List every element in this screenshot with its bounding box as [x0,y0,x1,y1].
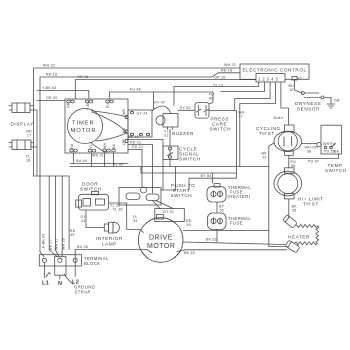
label THERMAL FUSE (HEATER) [228,185,252,199]
timer pin top 3 [106,100,114,103]
timer pins right edge [125,115,128,142]
wire BK 52 [183,238,286,245]
svg-text:WH 22: WH 22 [43,64,55,68]
connector display P2 [9,140,31,150]
wire pin1 GY47 [174,82,259,99]
wire push start to motor connector [153,201,174,209]
svg-text:BK 15: BK 15 [128,135,139,139]
svg-text:PU: PU [330,142,336,146]
wire motor upper right [183,230,269,232]
svg-text:YL 45: YL 45 [113,162,123,166]
svg-text:43: 43 [298,77,302,81]
wire pin5 BU44 to cycling [274,82,289,125]
wire timer bottom pin stubs [73,153,113,167]
label INTERIOR LAMP [96,236,123,247]
wire RD 49 riser [68,176,70,250]
svg-text:46: 46 [209,97,213,101]
svg-text:BK: BK [112,143,116,149]
svg-text:FUSE: FUSE [230,221,243,226]
label DRYNESS SENSOR [295,101,321,112]
thermal fuse body [208,213,227,230]
label TEMP SWITCH [325,163,347,173]
press care switch [195,103,209,119]
svg-text:WH: WH [103,142,107,149]
wire WH 22 top bus [34,63,241,176]
dryness sensor probe 2 [304,96,331,99]
svg-text:MOTOR: MOTOR [71,128,97,134]
svg-text:Y-BK: Y-BK [86,101,90,110]
svg-text:BUZZER: BUZZER [172,131,194,136]
svg-text:FU: FU [106,103,110,108]
label YL 18 [26,155,31,163]
cycle signal switch box [163,146,178,160]
terminal L2 lug [73,258,77,262]
wire BY 54 [189,174,236,190]
label TERMINAL BLOCK [84,256,109,266]
timer motor circle [68,109,103,144]
svg-text:44: 44 [279,116,283,120]
label TIMER MOTOR [71,121,97,135]
svg-text:OR 16: OR 16 [77,75,88,79]
svg-text:BU 26: BU 26 [77,245,88,249]
label CYCLING TH'ST [256,126,281,136]
wire cycle switch drop [169,160,171,167]
svg-text:L1: L1 [42,281,49,287]
wire YL 45 bus [70,162,269,166]
svg-text:BK: BK [122,127,126,133]
svg-text:58: 58 [307,150,311,154]
svg-text:RD 18: RD 18 [46,73,57,77]
label RD 17 [27,130,33,138]
svg-text:35: 35 [292,209,296,213]
svg-text:TIMER: TIMER [72,121,95,127]
svg-text:BK 33: BK 33 [184,251,195,255]
label YL 31 [164,130,169,138]
wire pin2 [221,82,264,92]
label RD 50 [186,219,192,227]
wire WH-OR 58 cycling to temp [302,143,322,154]
svg-text:GY 51: GY 51 [163,210,174,214]
timer cam trace 3 [90,142,106,152]
label CYCLE SIGNAL SWITCH [179,147,201,162]
svg-text:WH: WH [323,142,330,146]
svg-text:17: 17 [239,115,243,119]
svg-text:ELECTRONIC CONTROL: ELECTRONIC CONTROL [243,68,307,73]
wire FU 46 timer to press care [110,88,215,104]
svg-text:GY 24: GY 24 [137,112,148,116]
motor connector GY 51 [155,209,185,222]
timer pin labels right [122,108,126,145]
wire OR 16 from timer to control [75,75,256,99]
svg-text:GY 52: GY 52 [180,106,191,110]
buzzer body [156,114,178,130]
svg-text:(HEATER): (HEATER) [228,194,251,199]
push to start contact 1 [126,193,140,200]
label DRIVE MOTOR [147,235,175,251]
wire BK 27 riser [49,176,57,257]
svg-text:HEATER: HEATER [288,235,310,240]
wire L2 lead [74,263,76,277]
timer cam trace 2 [92,112,127,141]
wire BK 33 lower [177,250,287,255]
push to start plunger [141,187,147,193]
label PRESS CARE SWITCH [210,117,232,132]
wire mid horizontal to fuse [141,167,236,184]
svg-text:BK 52: BK 52 [206,238,217,242]
push to start switch box [119,188,161,206]
wire BK 33 from cycling [262,143,288,247]
wire display P2 to bus [31,143,37,148]
svg-text:N: N [58,281,62,287]
door switch body [76,191,109,210]
timer pin bottom 3 [103,149,111,152]
svg-text:GB: GB [334,99,340,103]
wire display P1 to bus [30,106,37,177]
wire fuse to BK52 [216,230,218,243]
svg-text:YL 13: YL 13 [213,84,223,88]
svg-text:49: 49 [70,233,74,237]
timer pin labels top [67,101,111,110]
svg-text:SWITCH: SWITCH [179,157,201,162]
terminal L1 lug [42,258,46,262]
svg-text:OR 20: OR 20 [46,96,57,100]
svg-text:18: 18 [26,159,30,163]
temp switch box [321,125,342,154]
svg-text:SWITCH: SWITCH [325,168,347,173]
svg-text:14: 14 [81,219,85,223]
timer pin top 1 [67,100,75,103]
svg-text:RD 21: RD 21 [132,145,143,149]
heater plug upper [283,215,298,229]
wire BU 19 to dryness sensor [289,80,303,93]
wire RD 21 from connector [128,145,143,186]
label DOOR SWITCH [80,182,102,192]
label HI-LIMIT TH'ST [298,197,324,207]
node timer cam origin [92,110,94,112]
svg-text:STRAP: STRAP [75,290,91,295]
wire F-BK 63 into terminal L1 [40,252,44,257]
wire Y-BK 63 to timer [37,86,89,99]
label RD 49 rotated [70,229,76,237]
svg-text:55: 55 [220,209,224,213]
heater plug lower [285,240,300,253]
hi-limit thermostat [274,168,302,199]
wire BU 44 bus [70,159,128,163]
svg-text:DRYNESS: DRYNESS [295,101,321,106]
svg-text:Y-BK 63: Y-BK 63 [42,86,56,90]
wire WH 17 riser [55,176,59,257]
cycling thermostat TH'ST [274,125,302,155]
timer pin bottom 2 [88,149,96,152]
wire OR 20 to timer [37,96,65,101]
svg-text:GY 47: GY 47 [154,101,165,105]
ground symbol dryness [327,98,335,109]
svg-text:1 2 3 4 5: 1 2 3 4 5 [258,76,279,81]
svg-text:MOTOR: MOTOR [147,243,175,250]
wire WH 26 riser [61,176,63,257]
svg-text:F-BK 63: F-BK 63 [42,233,46,248]
svg-text:31: 31 [164,134,168,138]
svg-text:WH 26: WH 26 [62,238,66,250]
dryness sensor probe 1 [301,92,319,95]
wire buzzer to cycle switch [169,130,171,147]
thermal fuse heater body [207,184,226,203]
ground strap leader [64,274,73,284]
wire BK 35 to heater [289,199,297,218]
control connector 1 2 3 4 5 [256,74,285,83]
wire BU 26 lamp feed [75,245,152,262]
svg-text:OR 16: OR 16 [214,75,225,79]
svg-text:RD 31: RD 31 [130,140,141,144]
drive motor brush ticks [142,251,181,259]
svg-text:WH 17: WH 17 [55,238,59,250]
svg-text:SWITCH: SWITCH [171,193,193,198]
label THERMAL FUSE [228,216,251,226]
terminal block body [39,255,81,276]
svg-text:BK 27: BK 27 [49,239,53,250]
svg-text:FU 46: FU 46 [130,88,141,92]
svg-text:BY 54: BY 54 [201,174,212,178]
control pin stub right [292,77,302,81]
svg-text:WH 21: WH 21 [92,154,104,158]
connector GY 24 [128,110,152,137]
svg-text:INTERIOR: INTERIOR [96,236,123,241]
svg-text:TH'ST: TH'ST [259,131,275,136]
timer motor box [65,99,128,153]
svg-text:PU 57: PU 57 [308,160,319,164]
wire BY 55 fuse link [217,202,225,213]
svg-text:SWITCH: SWITCH [210,127,232,132]
timer pin bottom 4 [112,149,116,152]
terminal N lug [58,258,62,262]
drive motor circle [138,218,183,263]
svg-text:LAMP: LAMP [102,242,117,247]
wire PU 57 to temp switch [289,154,339,164]
timer pin top 2 [85,100,93,103]
svg-text:WH 22: WH 22 [224,63,236,67]
connector display P1 [9,103,30,113]
svg-text:RD 18: RD 18 [221,69,232,73]
wire cycle drop join [161,167,176,191]
svg-text:DISPLAY: DISPLAY [11,122,34,127]
svg-text:BK: BK [334,150,340,154]
electronic control box [240,64,309,79]
svg-text:YL 35: YL 35 [113,208,123,212]
svg-text:33: 33 [262,156,266,160]
timer pin labels bottom [70,142,116,149]
svg-text:YL: YL [89,144,93,149]
drive motor top terminal [157,215,164,220]
wire L1 lead [44,263,50,278]
label PUSH TO START SWITCH [171,183,196,198]
wire GY 14 door to lamp [81,210,105,228]
wire FU46 branch to connector [153,92,155,110]
wire pin1 GY47 lower [173,99,175,106]
svg-text:OR: OR [67,102,71,108]
svg-text:BU: BU [70,143,74,149]
wire YL 35 door to motor [109,203,144,233]
svg-text:50: 50 [187,223,191,227]
wire WH 17 press care drop [209,110,245,178]
wire RD 31 from connector [128,140,153,193]
svg-text:OR: OR [122,139,126,145]
svg-text:BU 44: BU 44 [76,159,87,163]
wire N lead [59,275,61,279]
svg-text:WH: WH [122,108,126,115]
svg-text:TH'ST: TH'ST [303,202,319,207]
svg-text:SENSOR: SENSOR [297,107,320,112]
wire PU 56 cycling to hi-limit [289,155,296,168]
wire RD 18 bus [40,69,240,253]
svg-text:34: 34 [133,219,137,223]
wire GY 52 buzzer to press care [178,106,195,111]
svg-text:DRIVE: DRIVE [149,235,173,242]
wire left riser junction [34,175,70,177]
label YL 34 [133,215,138,223]
wire pin3 [235,82,270,110]
svg-text:19: 19 [289,88,293,92]
svg-text:17: 17 [27,134,31,138]
wire BK 15 from connector [128,135,163,190]
svg-text:56: 56 [291,164,295,168]
interior lamp bulb [104,222,119,233]
timer pin bottom 1 [70,149,78,152]
label GROUND STRAP [74,285,95,295]
timer cam trace 1 [93,111,127,117]
push to start contact 2 [146,194,159,201]
svg-text:SWITCH: SWITCH [80,187,102,192]
svg-text:BLOCK: BLOCK [84,261,100,266]
wire GY 47 buzzer feed [152,101,171,114]
wire pin4 WH17 drop [240,82,276,167]
heater element zigzag [295,225,319,245]
